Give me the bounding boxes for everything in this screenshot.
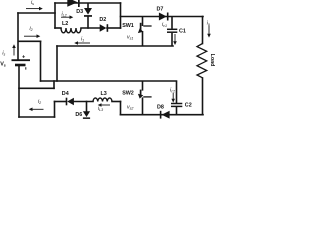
svg-text:L2: L2 [62,21,68,27]
arrow io [207,26,211,38]
svg-text:L3: L3 [101,91,107,97]
capacitor C2 [171,82,182,115]
wire load bottom vertical [202,78,204,115]
diode D3 [84,8,92,17]
arrow iL3 [98,103,110,107]
wire rail riser [56,46,58,81]
arrow is (top feed) [26,7,43,11]
svg-text:D8: D8 [157,104,164,110]
svg-text:C1: C1 [179,28,186,34]
svg-text:Vs: Vs [0,61,6,67]
svg-text:iL2: iL2 [62,12,67,18]
wire phase2 row mid [74,101,93,103]
resistor Load [197,44,207,78]
wire C2 top row [41,80,177,82]
label minus [25,67,27,69]
wire battery minus lead [18,66,20,118]
wire right vertical of cell [120,3,122,28]
svg-text:ic1: ic1 [162,22,167,28]
svg-text:io: io [207,21,210,27]
diode D7 [159,13,169,21]
svg-text:i2: i2 [38,99,41,105]
diode D8 (points left) [160,111,170,119]
arrow i2 (phase2 feed) [24,34,40,38]
svg-text:C2: C2 [185,103,192,109]
wire phase2 row left [55,101,66,103]
svg-text:Load: Load [209,54,215,67]
svg-text:SW1: SW1 [122,23,133,29]
svg-text:i1: i1 [81,36,84,42]
wire left vertical of cell [54,3,56,28]
wire battery plus tap [19,40,41,42]
arrow ic1 [173,34,177,45]
battery Vs [12,60,31,65]
arrow ic2 [171,93,175,103]
svg-text:SW2: SW2 [122,91,133,97]
inductor L3 [93,98,112,102]
wire phase2 feed vertical [40,41,42,81]
svg-text:D4: D4 [62,91,69,97]
wire bottom cell right vertical [120,102,122,115]
wire D6 branch vertical [86,102,88,112]
svg-text:vs2: vs2 [127,105,133,111]
wire H2 battery plus feed [18,12,55,14]
svg-text:i2: i2 [30,26,33,32]
svg-text:D3: D3 [76,9,83,15]
svg-text:is: is [2,51,5,57]
transistor SW2 [141,81,152,115]
diode D4 (points left) [66,98,74,106]
diode D6 [83,111,90,119]
inductor L2 [61,28,81,33]
svg-text:iL3: iL3 [98,106,103,112]
wire mid rail [57,45,173,47]
svg-text:D2: D2 [99,17,106,23]
arrow i1 (mid rail) [74,41,90,45]
svg-text:D6: D6 [75,112,82,118]
wire output row [121,16,204,18]
transistor SW1 [141,17,152,47]
wire top H1 [55,2,121,4]
arrow i2 (bottom) [29,108,44,112]
wire bottom rail [121,114,204,116]
wire D3 branch vertical bottom [87,16,89,28]
wire L2-D2 segment [81,27,100,29]
wire row to minus drop [53,81,55,88]
capacitor C1 [167,17,177,47]
diode D2 [100,24,109,32]
wire phase2 row right [112,101,121,103]
svg-text:D7: D7 [157,7,164,13]
wire L2 lead left [55,27,61,29]
wire battery plus riser [17,13,19,60]
svg-text:is: is [31,0,34,6]
wire D2 to corner [107,27,121,29]
wire load top vertical [202,17,204,44]
wire phase2 riser [54,102,56,118]
svg-text:ic2: ic2 [170,88,175,94]
arrow iL2 [61,15,73,19]
wire battery minus row [19,87,54,89]
diode D1 (clipped at top edge) [67,0,79,7]
wire D3 branch vertical top [87,4,89,8]
wire bottom left rail [19,116,55,118]
arrow is (battery) [12,44,16,55]
svg-text:vs1: vs1 [127,35,133,41]
